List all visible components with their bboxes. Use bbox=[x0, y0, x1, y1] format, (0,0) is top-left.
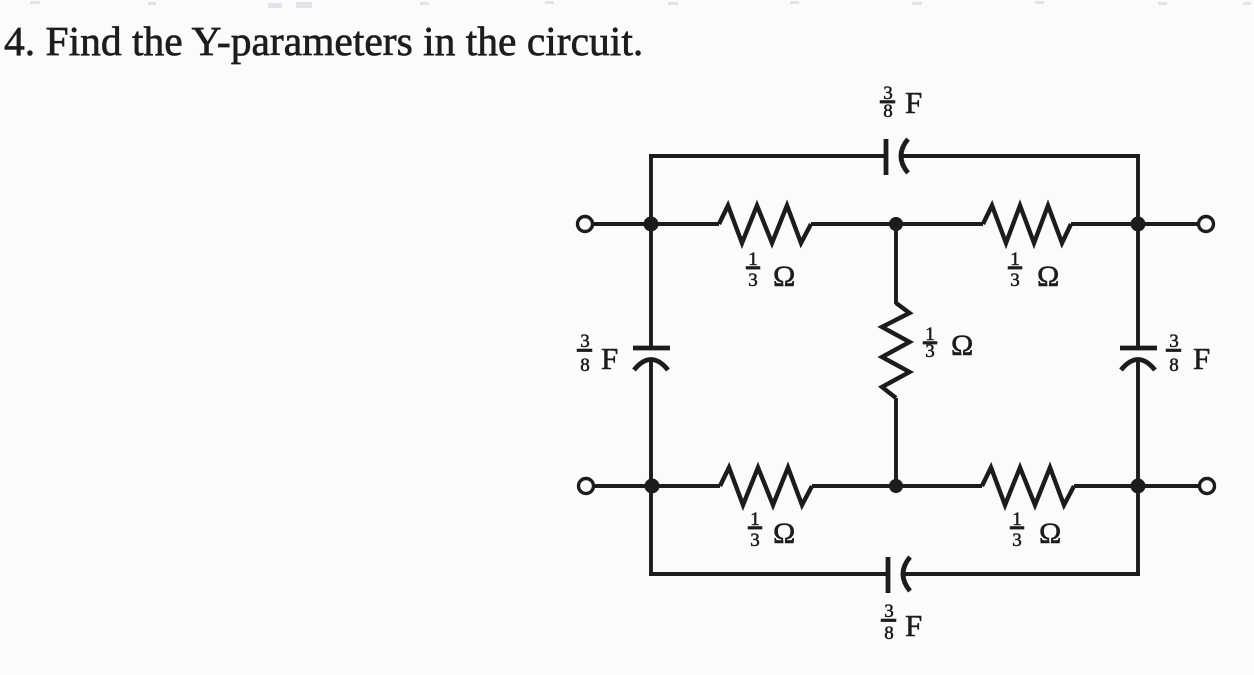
svg-text:3: 3 bbox=[750, 530, 760, 551]
label R2 value 1/3 ohm bbox=[1008, 249, 1059, 293]
terminal port 2 (top-right open circle) bbox=[1199, 217, 1214, 232]
wire node3 to R2 bbox=[896, 222, 983, 226]
wire top right segment (from top capacitor) bbox=[902, 154, 1140, 158]
terminal port 2' (bottom-right open circle) bbox=[1200, 479, 1215, 494]
wire port1' lead bbox=[594, 484, 652, 488]
node junction dot bottom-middle bbox=[889, 479, 903, 493]
label C2 value 3/8 F bbox=[577, 331, 618, 376]
wire R2 to node2 bbox=[1071, 222, 1138, 226]
node junction dot top-right bbox=[1131, 217, 1146, 232]
wire bottom right segment (from bottom capacitor) bbox=[904, 572, 1140, 576]
label C3 value 3/8 F bbox=[1166, 331, 1210, 376]
svg-text:F: F bbox=[905, 608, 922, 643]
faint scan artifacts along top edge bbox=[30, 1, 40, 4]
svg-text:8: 8 bbox=[884, 623, 894, 644]
label C4 value 3/8 F bbox=[881, 601, 922, 644]
terminal port 1' (bottom-left open circle) bbox=[579, 479, 594, 494]
capacitor C4 3/8 F bottom: curved plate bbox=[903, 557, 910, 591]
wire port2 lead bbox=[1138, 222, 1198, 226]
svg-text:F: F bbox=[601, 341, 618, 376]
node junction dot top-middle bbox=[889, 217, 903, 231]
svg-text:Ω: Ω bbox=[1037, 260, 1059, 293]
svg-text:8: 8 bbox=[1169, 355, 1179, 376]
label C1 value 3/8 F bbox=[880, 83, 922, 122]
wire R4 to node6 bbox=[812, 484, 896, 488]
svg-text:3: 3 bbox=[748, 270, 758, 291]
svg-text:Ω: Ω bbox=[773, 260, 795, 293]
resistor R3 1/3 ohm (middle vertical zigzag) bbox=[882, 303, 910, 398]
capacitor C2 3/8 F left: curved plate bbox=[634, 360, 668, 371]
wire right vertical lower (right cap to bottom-right corner) bbox=[1136, 360, 1140, 574]
wire node4 to R4 bbox=[652, 484, 720, 488]
node junction dot top-left bbox=[644, 217, 659, 232]
resistor R2 1/3 ohm (top-right zigzag) bbox=[983, 206, 1071, 244]
svg-text:F: F bbox=[905, 85, 922, 120]
wire port2' lead bbox=[1138, 484, 1199, 488]
wire R3 to node6 bbox=[894, 398, 898, 486]
wire R1 to node3 bbox=[811, 222, 896, 226]
capacitor C2 3/8 F left: flat plate bbox=[633, 346, 670, 351]
svg-text:8: 8 bbox=[883, 101, 893, 122]
capacitor C1 3/8 F top: curved plate bbox=[901, 139, 908, 173]
wire node1 to R1 bbox=[651, 222, 719, 226]
capacitor C4 3/8 F bottom: left plate bbox=[886, 557, 891, 593]
capacitor C1 3/8 F top: left plate bbox=[884, 139, 889, 175]
svg-text:Ω: Ω bbox=[951, 329, 973, 362]
resistor R1 1/3 ohm (top-left zigzag) bbox=[719, 206, 811, 244]
resistor R4 1/3 ohm (bottom-left zigzag) bbox=[720, 468, 812, 506]
svg-text:Ω: Ω bbox=[1039, 517, 1061, 550]
svg-text:3: 3 bbox=[1010, 270, 1020, 291]
svg-text:3: 3 bbox=[925, 341, 935, 362]
svg-text:3: 3 bbox=[1012, 530, 1022, 551]
terminal port 1 (top-left open circle) bbox=[578, 217, 593, 232]
wire left vertical lower (left cap to bottom-left corner) bbox=[649, 360, 653, 574]
node junction dot bottom-right bbox=[1131, 479, 1146, 494]
wire node6 to R5 bbox=[896, 484, 982, 488]
wire right vertical upper (top wire to right cap) bbox=[1136, 154, 1140, 346]
label R5 value 1/3 ohm bbox=[1010, 509, 1061, 551]
wire port1 lead bbox=[593, 222, 651, 226]
svg-text:F: F bbox=[1193, 341, 1210, 376]
node junction dot bottom-left bbox=[645, 479, 660, 494]
wire node3 to R3 bbox=[894, 224, 898, 304]
capacitor C3 3/8 F right: flat plate bbox=[1120, 346, 1157, 351]
wire R5 to node5 bbox=[1074, 484, 1138, 488]
wire bottom left segment (to bottom capacitor) bbox=[649, 572, 886, 576]
capacitor C3 3/8 F right: curved plate bbox=[1121, 360, 1155, 371]
wire left vertical upper (node1 to left cap) bbox=[649, 154, 653, 346]
resistor R5 1/3 ohm (bottom-right zigzag) bbox=[982, 468, 1074, 506]
wire top left segment (to top capacitor) bbox=[649, 154, 884, 158]
label R1 value 1/3 ohm bbox=[746, 249, 795, 293]
label R4 value 1/3 ohm bbox=[748, 509, 795, 551]
label R3 value 1/3 ohm bbox=[923, 324, 973, 362]
svg-text:8: 8 bbox=[580, 355, 590, 376]
svg-text:Ω: Ω bbox=[773, 517, 795, 550]
title text bbox=[4, 17, 643, 65]
